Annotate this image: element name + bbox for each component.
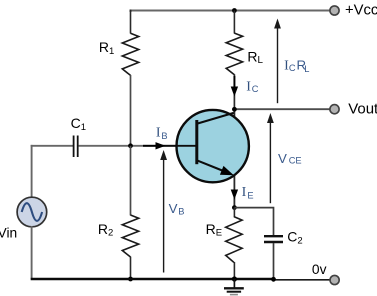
terminal: +Vcc — [330, 6, 339, 15]
svg-text:C: C — [289, 63, 296, 73]
node: junction of R1 branch and top rail (top-left corner) — [130, 10, 132, 13]
node: RE / ground symbol junction — [232, 276, 237, 281]
wire: C2 bottom to ground rail — [273, 243, 275, 280]
capacitor C1 — [74, 136, 78, 158]
node: emitter junction (RE and C2 branch) — [232, 205, 237, 210]
terminal: 0v — [330, 275, 339, 284]
arrow: emitter current IE below transistor — [231, 190, 238, 200]
svg-text:L: L — [304, 64, 309, 74]
svg-text:V: V — [169, 201, 178, 216]
node: R2 to ground rail junction — [128, 277, 133, 282]
arrow: VCE measurement arrow (collector-emitter voltage) — [267, 113, 274, 203]
svg-text:I: I — [242, 185, 247, 200]
wire: C1 to transistor base — [79, 145, 179, 147]
node: collector node (circle top meets Vout wire) — [232, 107, 237, 112]
resistor RE (emitter resistor) — [226, 208, 242, 279]
wire: Vin branch vertical (top section) — [31, 145, 33, 198]
arrow: VB measurement arrow (base voltage) — [160, 150, 167, 273]
capacitor C2 (emitter bypass) — [264, 236, 283, 242]
wire: ground rail to 0v terminal — [274, 279, 330, 281]
svg-text:B: B — [161, 131, 167, 141]
wire: Vin branch vertical (bottom section) — [31, 226, 33, 280]
wire: +Vcc top rail — [130, 10, 330, 12]
svg-text:Vin: Vin — [0, 226, 17, 241]
resistor R1 — [122, 11, 138, 147]
wire: from Vin top to C1 left plate (base input wire) — [31, 145, 73, 147]
wire: emitter node to C2 top — [234, 208, 273, 235]
svg-text:B: B — [178, 206, 184, 216]
resistor R2 — [122, 146, 138, 279]
arrow: collector current IC on RL branch — [231, 76, 238, 97]
resistor RL (collector load) — [226, 11, 242, 110]
node: base junction (R1/R2 divider to base wire) — [128, 143, 133, 148]
terminal: Vout — [330, 105, 339, 114]
svg-text:CE: CE — [289, 156, 302, 166]
wire: collector node to Vout terminal — [234, 108, 329, 110]
svg-text:I: I — [246, 79, 251, 94]
svg-text:V: V — [278, 151, 287, 166]
arrow: base current IB on base wire — [143, 142, 166, 149]
svg-text:Vout: Vout — [348, 101, 377, 118]
svg-text:0v: 0v — [312, 262, 327, 277]
svg-text:I: I — [156, 126, 161, 141]
svg-text:E: E — [247, 191, 253, 201]
source Vin (AC signal source) — [17, 197, 47, 227]
arrow: IC RL voltage drop arrow — [274, 19, 281, 104]
node: junction of RL branch on top rail — [232, 8, 237, 13]
svg-text:C: C — [252, 84, 259, 94]
wire: ground rail (0v) — [31, 278, 274, 281]
node: C2 to ground rail junction — [271, 277, 276, 282]
wire: transistor collector-emitter vertical through circle — [233, 109, 235, 207]
svg-text:+Vcc: +Vcc — [345, 3, 377, 19]
ground symbol — [224, 279, 244, 295]
transistor Q1 (NPN, common emitter) — [162, 110, 249, 182]
